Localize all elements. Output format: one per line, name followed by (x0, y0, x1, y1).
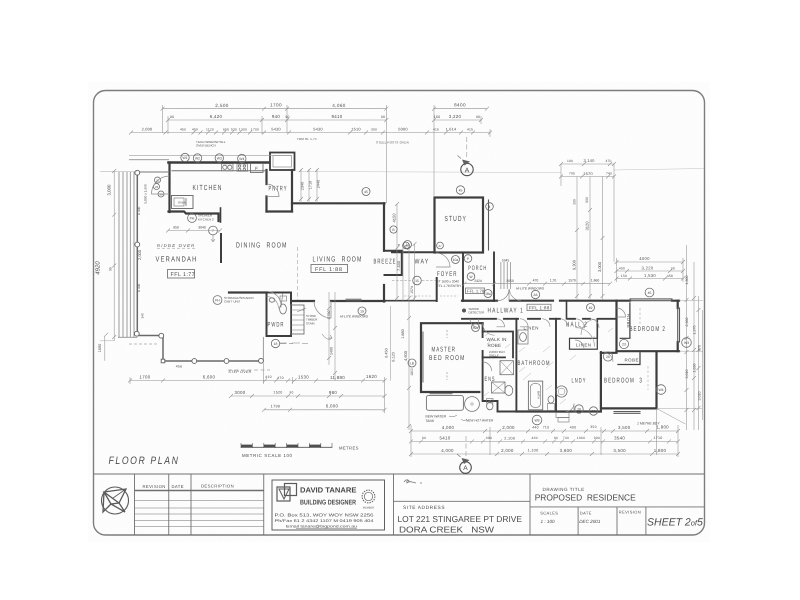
bed3 interior door dashes (647, 366, 649, 390)
study top tag (456, 186, 464, 194)
svg-text:940: 940 (272, 114, 280, 119)
svg-text:DEC 2001: DEC 2001 (579, 519, 601, 524)
designer address (275, 513, 375, 529)
svg-text:4150: 4150 (392, 213, 397, 223)
study walls (435, 198, 484, 253)
master tags (472, 324, 480, 332)
svg-text:23: 23 (622, 343, 626, 347)
svg-text:470: 470 (533, 279, 539, 283)
bed2 north small circles (403, 242, 410, 249)
svg-text:2,000: 2,000 (502, 425, 515, 430)
bath south tag (532, 415, 542, 425)
svg-text:5000: 5000 (398, 127, 408, 132)
svg-text:2050: 2050 (506, 279, 514, 283)
row3 numbers (142, 127, 473, 132)
verandah east boundary below powder (262, 337, 264, 361)
porch tags (467, 273, 475, 281)
svg-text:650: 650 (223, 128, 229, 132)
svg-text:BREEZE: BREEZE (374, 259, 397, 266)
svg-text:ROBE: ROBE (488, 343, 502, 348)
laundry west wall (555, 351, 557, 412)
svg-text:LB: LB (410, 362, 415, 366)
foyer tags (452, 256, 460, 264)
svg-text:90: 90 (170, 115, 174, 119)
svg-text:350: 350 (590, 425, 597, 429)
svg-text:2,000: 2,000 (501, 448, 514, 453)
svg-text:BED ROOM: BED ROOM (429, 355, 466, 362)
svg-text:HI-LITE WINDOWS: HI-LITE WINDOWS (516, 287, 545, 291)
row2 numbers (170, 114, 480, 119)
svg-text:90: 90 (289, 390, 293, 394)
svg-text:45: 45 (648, 291, 652, 295)
svg-text:4920: 4920 (95, 261, 102, 275)
hall2 doors to bed2 bed3 (576, 319, 585, 328)
pantry west wall (265, 170, 267, 212)
svg-text:BEDROOM 2: BEDROOM 2 (630, 326, 667, 333)
svg-text:458: 458 (667, 274, 673, 278)
svg-text:5410: 5410 (440, 435, 451, 440)
svg-text:W1: W1 (182, 156, 187, 160)
smoke detector (462, 307, 484, 315)
svg-text:DETECTOR: DETECTOR (469, 310, 485, 314)
svg-text:1710: 1710 (653, 436, 662, 440)
svg-text:FFL 1:78: FFL 1:78 (467, 289, 485, 294)
living south wall (292, 300, 385, 302)
svg-text:OVEN: OVEN (178, 201, 186, 205)
svg-text:3540: 3540 (614, 435, 625, 440)
svg-text:6,000: 6,000 (326, 403, 339, 408)
svg-text:4,600: 4,600 (403, 350, 408, 361)
svg-text:1,370: 1,370 (693, 326, 697, 335)
svg-text:DRAWING TITLE: DRAWING TITLE (543, 487, 585, 492)
pantry south wall (267, 210, 293, 212)
window tags kitchen wall (181, 153, 189, 161)
hall2 big arcs (576, 328, 595, 347)
pantry bay box (270, 153, 295, 171)
bathroom west wall (515, 319, 517, 412)
dim row 2 (168, 119, 386, 121)
svg-text:VERANDAH: VERANDAH (156, 255, 198, 264)
svg-text:6.450: 6.450 (385, 348, 389, 358)
svg-text:D 400: D 400 (137, 284, 141, 293)
svg-text:400: 400 (570, 425, 577, 429)
svg-text:1,630: 1,630 (693, 364, 697, 373)
svg-text:1570: 1570 (568, 279, 576, 283)
svg-text:3,000: 3,000 (107, 184, 112, 196)
svg-text:1,860: 1,860 (591, 279, 600, 283)
svg-text:710: 710 (543, 425, 550, 429)
study door (436, 253, 450, 267)
extension stubs (163, 105, 491, 203)
svg-text:FFL 1:88: FFL 1:88 (315, 267, 343, 273)
svg-text:W3: W3 (684, 341, 689, 345)
hall2/bed tags (619, 339, 628, 348)
section marker A bottom (457, 436, 471, 473)
kitchen stove (237, 164, 248, 171)
svg-text:2,360: 2,360 (685, 318, 689, 327)
svg-text:980: 980 (329, 390, 337, 395)
breezeway south wall to foyer (385, 300, 437, 302)
svg-text:W4: W4 (239, 157, 244, 161)
svg-text:1860: 1860 (577, 436, 586, 440)
bathroom south wall (516, 410, 601, 412)
walls (169, 153, 680, 414)
svg-text:SCALES: SCALES (540, 510, 558, 515)
living east wall upper (383, 203, 385, 250)
svg-text:1690: 1690 (98, 344, 102, 352)
hall2 top tags (587, 304, 595, 312)
svg-text:ST 1600 x 2040: ST 1600 x 2040 (437, 280, 460, 284)
dining-living dashed divider (297, 247, 299, 300)
svg-text:1400: 1400 (330, 347, 334, 355)
kitchen sink (222, 164, 234, 171)
svg-text:160: 160 (434, 115, 441, 119)
svg-text:785: 785 (569, 172, 575, 176)
breezeway tag 16 (404, 241, 412, 249)
svg-text:1,800: 1,800 (654, 448, 667, 453)
svg-text:DORA CREEK NSW: DORA CREEK NSW (399, 524, 495, 534)
master-west vertical dim texts (385, 329, 406, 362)
svg-text:PH: PH (215, 299, 220, 303)
svg-text:4000: 4000 (639, 256, 650, 261)
tag 7 (209, 226, 218, 242)
bedroom3 south window (614, 412, 640, 414)
hallway tag (531, 290, 539, 298)
svg-text:530: 530 (231, 128, 237, 132)
bathroom vanity (518, 330, 528, 344)
svg-text:1570: 1570 (583, 171, 593, 176)
svg-text:90: 90 (381, 115, 385, 119)
svg-text:BATH: BATH (537, 391, 541, 399)
svg-text:3,500: 3,500 (613, 448, 626, 453)
svg-text:HALLWAY 1: HALLWAY 1 (488, 308, 525, 315)
bed2 door (617, 308, 626, 317)
study east window line (488, 200, 490, 250)
bedroom2 robe closet (620, 303, 630, 338)
svg-text:4,060: 4,060 (332, 103, 346, 108)
svg-text:W4: W4 (658, 388, 663, 392)
svg-text:1510: 1510 (351, 127, 361, 132)
titleblock top edge (94, 473, 705, 475)
svg-text:PWDR: PWDR (268, 322, 285, 329)
svg-text:D 400: D 400 (137, 207, 141, 216)
svg-text:DATE: DATE (172, 484, 184, 489)
breezeway south wall (392, 251, 435, 253)
svg-text:740: 740 (563, 436, 569, 440)
svg-text:5345: 5345 (502, 259, 510, 263)
deck main edge west (136, 172, 138, 336)
long datum line (298, 172, 561, 173)
svg-text:OVER BENCH: OVER BENCH (196, 144, 216, 148)
svg-text:DESCRIPTION: DESCRIPTION (201, 484, 234, 489)
svg-text:FFL 1.78 ENTRY: FFL 1.78 ENTRY (437, 284, 462, 288)
svg-text:FLOOR PLAN: FLOOR PLAN (109, 455, 180, 467)
room labels (156, 183, 667, 385)
eave line over kitchen (129, 155, 292, 157)
svg-text:6,600: 6,600 (203, 375, 216, 380)
svg-text:STEP OVER: STEP OVER (228, 370, 251, 374)
svg-text:KITCHEN: KITCHEN (193, 183, 223, 192)
svg-text:CAB'T UNIT: CAB'T UNIT (224, 300, 241, 304)
svg-text:MASTER: MASTER (432, 347, 457, 354)
svg-text:300: 300 (573, 199, 577, 205)
svg-text:F: F (255, 166, 258, 171)
extra details (166, 226, 648, 404)
svg-text:1700: 1700 (140, 375, 151, 380)
svg-text:DATE: DATE (580, 510, 592, 515)
svg-text:W2: W2 (195, 157, 200, 161)
study east tag (486, 203, 494, 211)
bottom-centre dimension rows (409, 408, 686, 457)
speaker kitchen tag (188, 214, 214, 223)
ensuite shower (500, 361, 514, 375)
svg-text:3,220: 3,220 (642, 266, 654, 271)
hallway north wall (462, 300, 617, 302)
svg-text:900: 900 (585, 197, 589, 203)
svg-text:990: 990 (594, 436, 600, 440)
ensuite walls (483, 392, 517, 412)
svg-text:9,300: 9,300 (572, 259, 577, 270)
row2 ticks (166, 118, 483, 122)
living step arrow (322, 334, 332, 339)
wir hatch (485, 332, 510, 348)
svg-text:3,600: 3,600 (560, 448, 573, 453)
svg-text:410: 410 (265, 375, 272, 379)
porch dim row (465, 283, 611, 285)
svg-text:2440: 2440 (317, 180, 321, 188)
svg-text:950: 950 (173, 226, 179, 230)
designer box (272, 480, 385, 530)
designer logo squares (277, 484, 297, 502)
svg-text:SHEET 2of5: SHEET 2of5 (647, 516, 703, 528)
svg-text:BEDROOM 3: BEDROOM 3 (604, 378, 643, 385)
svg-text:5430: 5430 (271, 127, 281, 132)
scan noise texture (88, 82, 710, 542)
svg-text:3,010: 3,010 (685, 370, 689, 379)
svg-text:1,530: 1,530 (644, 273, 656, 278)
svg-text:45: 45 (364, 190, 368, 194)
svg-text:15: 15 (415, 279, 419, 283)
svg-text:3000: 3000 (235, 390, 246, 395)
powder fixtures (269, 296, 286, 314)
bath tub (528, 381, 542, 410)
living south tag (358, 307, 366, 315)
hallway-master door (470, 319, 479, 328)
svg-text:STEEL POSTS OVER: STEEL POSTS OVER (376, 141, 410, 145)
svg-text:1.880: 1.880 (401, 329, 405, 339)
svg-text:415: 415 (467, 128, 473, 132)
svg-text:9410: 9410 (332, 114, 343, 119)
row1 numbers (215, 103, 466, 109)
titleblock cell dividers (134, 474, 136, 535)
svg-text:1700: 1700 (270, 103, 282, 108)
svg-text:1,800: 1,800 (685, 276, 689, 285)
svg-text:190: 190 (567, 159, 573, 163)
svg-text:3,000: 3,000 (597, 261, 602, 272)
svg-text:ROBE: ROBE (625, 358, 639, 363)
svg-text:23: 23 (155, 185, 159, 189)
svg-text:1120: 1120 (206, 128, 214, 132)
bottom-left dimension rows (128, 362, 387, 413)
svg-text:2424: 2424 (474, 279, 482, 283)
row3 ticks (129, 131, 492, 135)
bedroom3 walls (601, 353, 657, 409)
svg-text:19: 19 (360, 310, 364, 314)
svg-text:440: 440 (532, 425, 539, 429)
svg-text:4: 4 (489, 205, 491, 209)
circle tags (154, 153, 692, 425)
svg-text:1800: 1800 (410, 368, 414, 376)
svg-text:10a: 10a (453, 258, 459, 262)
svg-text:29: 29 (592, 410, 596, 414)
bathroom hatch squiggles (519, 346, 553, 390)
svg-text:FFL 1:88: FFL 1:88 (529, 305, 550, 310)
svg-text:Ph/Fax 61 2 4342 1107 M: Ph/Fax 61 2 4342 1107 M 0419 905 404 (275, 518, 375, 523)
bedroom2 top dimension rows (615, 256, 686, 282)
svg-text:ROBE: ROBE (626, 314, 631, 328)
laundry trough (556, 386, 567, 397)
bathroom east wall (555, 319, 557, 412)
linen doors hallway (542, 319, 550, 327)
svg-text:RIDGE OVER: RIDGE OVER (157, 243, 195, 248)
svg-text:LNDY: LNDY (572, 378, 587, 385)
svg-text:2,000: 2,000 (142, 127, 153, 132)
svg-text:90: 90 (285, 115, 289, 119)
svg-text:415: 415 (433, 128, 439, 132)
kitchen west wall (168, 163, 170, 213)
master east wall (482, 323, 484, 392)
svg-text:1 : 100: 1 : 100 (541, 519, 555, 524)
living south window (346, 300, 361, 302)
svg-text:A: A (465, 167, 470, 174)
svg-text:90: 90 (671, 266, 675, 270)
vertical dim lines to bedroom wing (560, 164, 562, 186)
laundry tags (575, 405, 583, 413)
ensuite basin (505, 386, 513, 396)
svg-text:3,500: 3,500 (618, 425, 631, 430)
ens-bath corridor hatch (484, 328, 613, 404)
verandah posts (134, 170, 263, 363)
svg-text:18a: 18a (485, 292, 491, 296)
svg-text:480: 480 (531, 436, 537, 440)
svg-text:A: A (463, 465, 468, 472)
svg-text:MEMBER: MEMBER (363, 507, 375, 510)
svg-text:STUDY: STUDY (445, 214, 468, 223)
svg-text:470: 470 (277, 376, 284, 380)
svg-text:TANK: TANK (425, 419, 435, 423)
scales date revision labels (540, 510, 641, 516)
svg-text:P.O. Box 513, WOY WOY NSW: P.O. Box 513, WOY WOY NSW 2256 (275, 513, 375, 518)
svg-text:450: 450 (192, 128, 198, 132)
verandah east step edge (162, 336, 164, 361)
svg-text:2,000: 2,000 (137, 249, 142, 260)
kitchen west tags (155, 177, 161, 183)
right section divider (530, 506, 705, 508)
master door arc top (483, 323, 495, 335)
wir door (497, 319, 505, 327)
north-point logo (102, 487, 129, 514)
deck edge lines west (118, 172, 120, 337)
verandah south boundary (163, 360, 264, 362)
powder tag (271, 339, 293, 347)
revision table row lines (135, 500, 264, 502)
kitchen south wall (169, 212, 219, 222)
svg-text:SHELF: SHELF (489, 353, 499, 357)
deck south edge (118, 336, 137, 338)
svg-text:Email tanare@bigpond.com.au: Email tanare@bigpond.com.au (286, 525, 357, 529)
svg-text:HI-LITE WINDOWS: HI-LITE WINDOWS (340, 315, 369, 319)
ensuite hatched box (492, 382, 506, 393)
svg-text:5430: 5430 (313, 127, 323, 132)
bed3 door (604, 353, 613, 362)
linen closet hall2 (570, 338, 598, 349)
laundry door (566, 404, 574, 412)
svg-text:26: 26 (606, 355, 610, 359)
dining west wall stub (220, 208, 222, 222)
svg-text:TBM RL 1.74: TBM RL 1.74 (297, 137, 317, 141)
svg-text:1530: 1530 (298, 375, 309, 380)
svg-text:90: 90 (476, 115, 480, 119)
svg-text:BUILDING DESIGNER: BUILDING DESIGNER (300, 500, 356, 507)
svg-text:5,890 x 1,990: 5,890 x 1,990 (144, 184, 148, 204)
svg-text:1520: 1520 (273, 391, 282, 395)
porch steps (501, 262, 511, 289)
svg-text:FOYER: FOYER (437, 271, 458, 278)
bed2 interior dashes (639, 308, 641, 326)
kitchen under-island dims (168, 230, 220, 232)
svg-text:WALK IN: WALK IN (487, 337, 507, 342)
bath door (520, 319, 528, 327)
svg-text:METRIC SCALE 100: METRIC SCALE 100 (242, 453, 293, 458)
svg-text:1,100: 1,100 (527, 449, 538, 453)
label FFL 1:88 living (311, 265, 348, 273)
sheet border frame (94, 91, 705, 536)
site address divider (394, 500, 531, 502)
pantry-right vertical dims (300, 169, 302, 203)
breezeway enclosure (384, 251, 402, 275)
way step dashes (404, 295, 432, 297)
bedroom2 walls (617, 301, 678, 352)
svg-text:PROPOSED RESIDENCE: PROPOSED RESIDENCE (535, 492, 636, 502)
door arcs (152, 176, 626, 412)
powder room pod (267, 293, 292, 337)
svg-text:LIVING ROOM: LIVING ROOM (313, 255, 363, 264)
svg-text:7: 7 (212, 229, 214, 233)
revision table header underline (135, 490, 264, 492)
svg-text:2,500: 2,500 (215, 103, 229, 108)
svg-text:7.440: 7.440 (396, 260, 401, 271)
svg-text:STAIR: STAIR (306, 321, 315, 325)
svg-text:REVISION: REVISION (619, 510, 641, 515)
svg-text:FFL 1:77: FFL 1:77 (171, 272, 196, 278)
svg-text:PORCH: PORCH (468, 265, 487, 272)
bedroom3 robe (618, 353, 640, 365)
laundry steps (556, 413, 569, 423)
hallway south wall (462, 318, 617, 320)
kitchen bench front (172, 170, 267, 172)
designer seal (362, 490, 375, 509)
living north tag (362, 188, 370, 196)
hall2 walls (567, 301, 598, 338)
kitchen north wall (169, 161, 271, 164)
bedroom2 north wall (617, 300, 680, 302)
label FFL 1:88 hallway (527, 304, 551, 310)
breezeway mid tag (413, 276, 422, 285)
svg-text:66: 66 (404, 244, 408, 248)
svg-text:450: 450 (180, 128, 186, 132)
svg-text:28: 28 (577, 408, 581, 412)
foyer dashed line (392, 280, 436, 282)
